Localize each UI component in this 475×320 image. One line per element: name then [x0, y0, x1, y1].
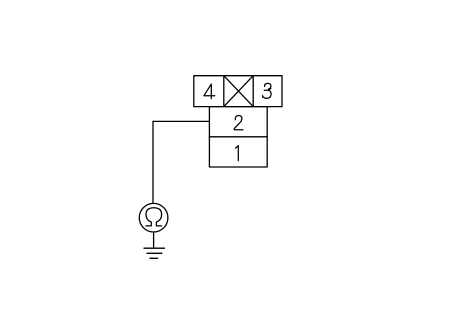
pin number 1: [236, 146, 239, 161]
lamp filament omega symbol: [146, 208, 162, 226]
wire vertical segment down to lamp: [152, 121, 154, 203]
connector keyway X: [224, 76, 253, 107]
pin number 3: [263, 83, 272, 98]
ground symbol: [144, 248, 164, 258]
divider between keyway and pin 3 cell: [252, 76, 254, 107]
wire from lamp to ground: [153, 232, 155, 248]
connector body cell 2: [209, 107, 267, 137]
divider between pin 4 cell and keyway: [223, 76, 225, 107]
pin number 2: [234, 116, 243, 130]
connector pin-row outline (pins 4 / keyway / 3): [194, 76, 282, 107]
pin number 4: [204, 84, 215, 99]
wire from pin 2, horizontal segment: [153, 120, 209, 122]
connector body cell 1: [209, 137, 267, 167]
lamp symbol circle: [139, 203, 168, 232]
